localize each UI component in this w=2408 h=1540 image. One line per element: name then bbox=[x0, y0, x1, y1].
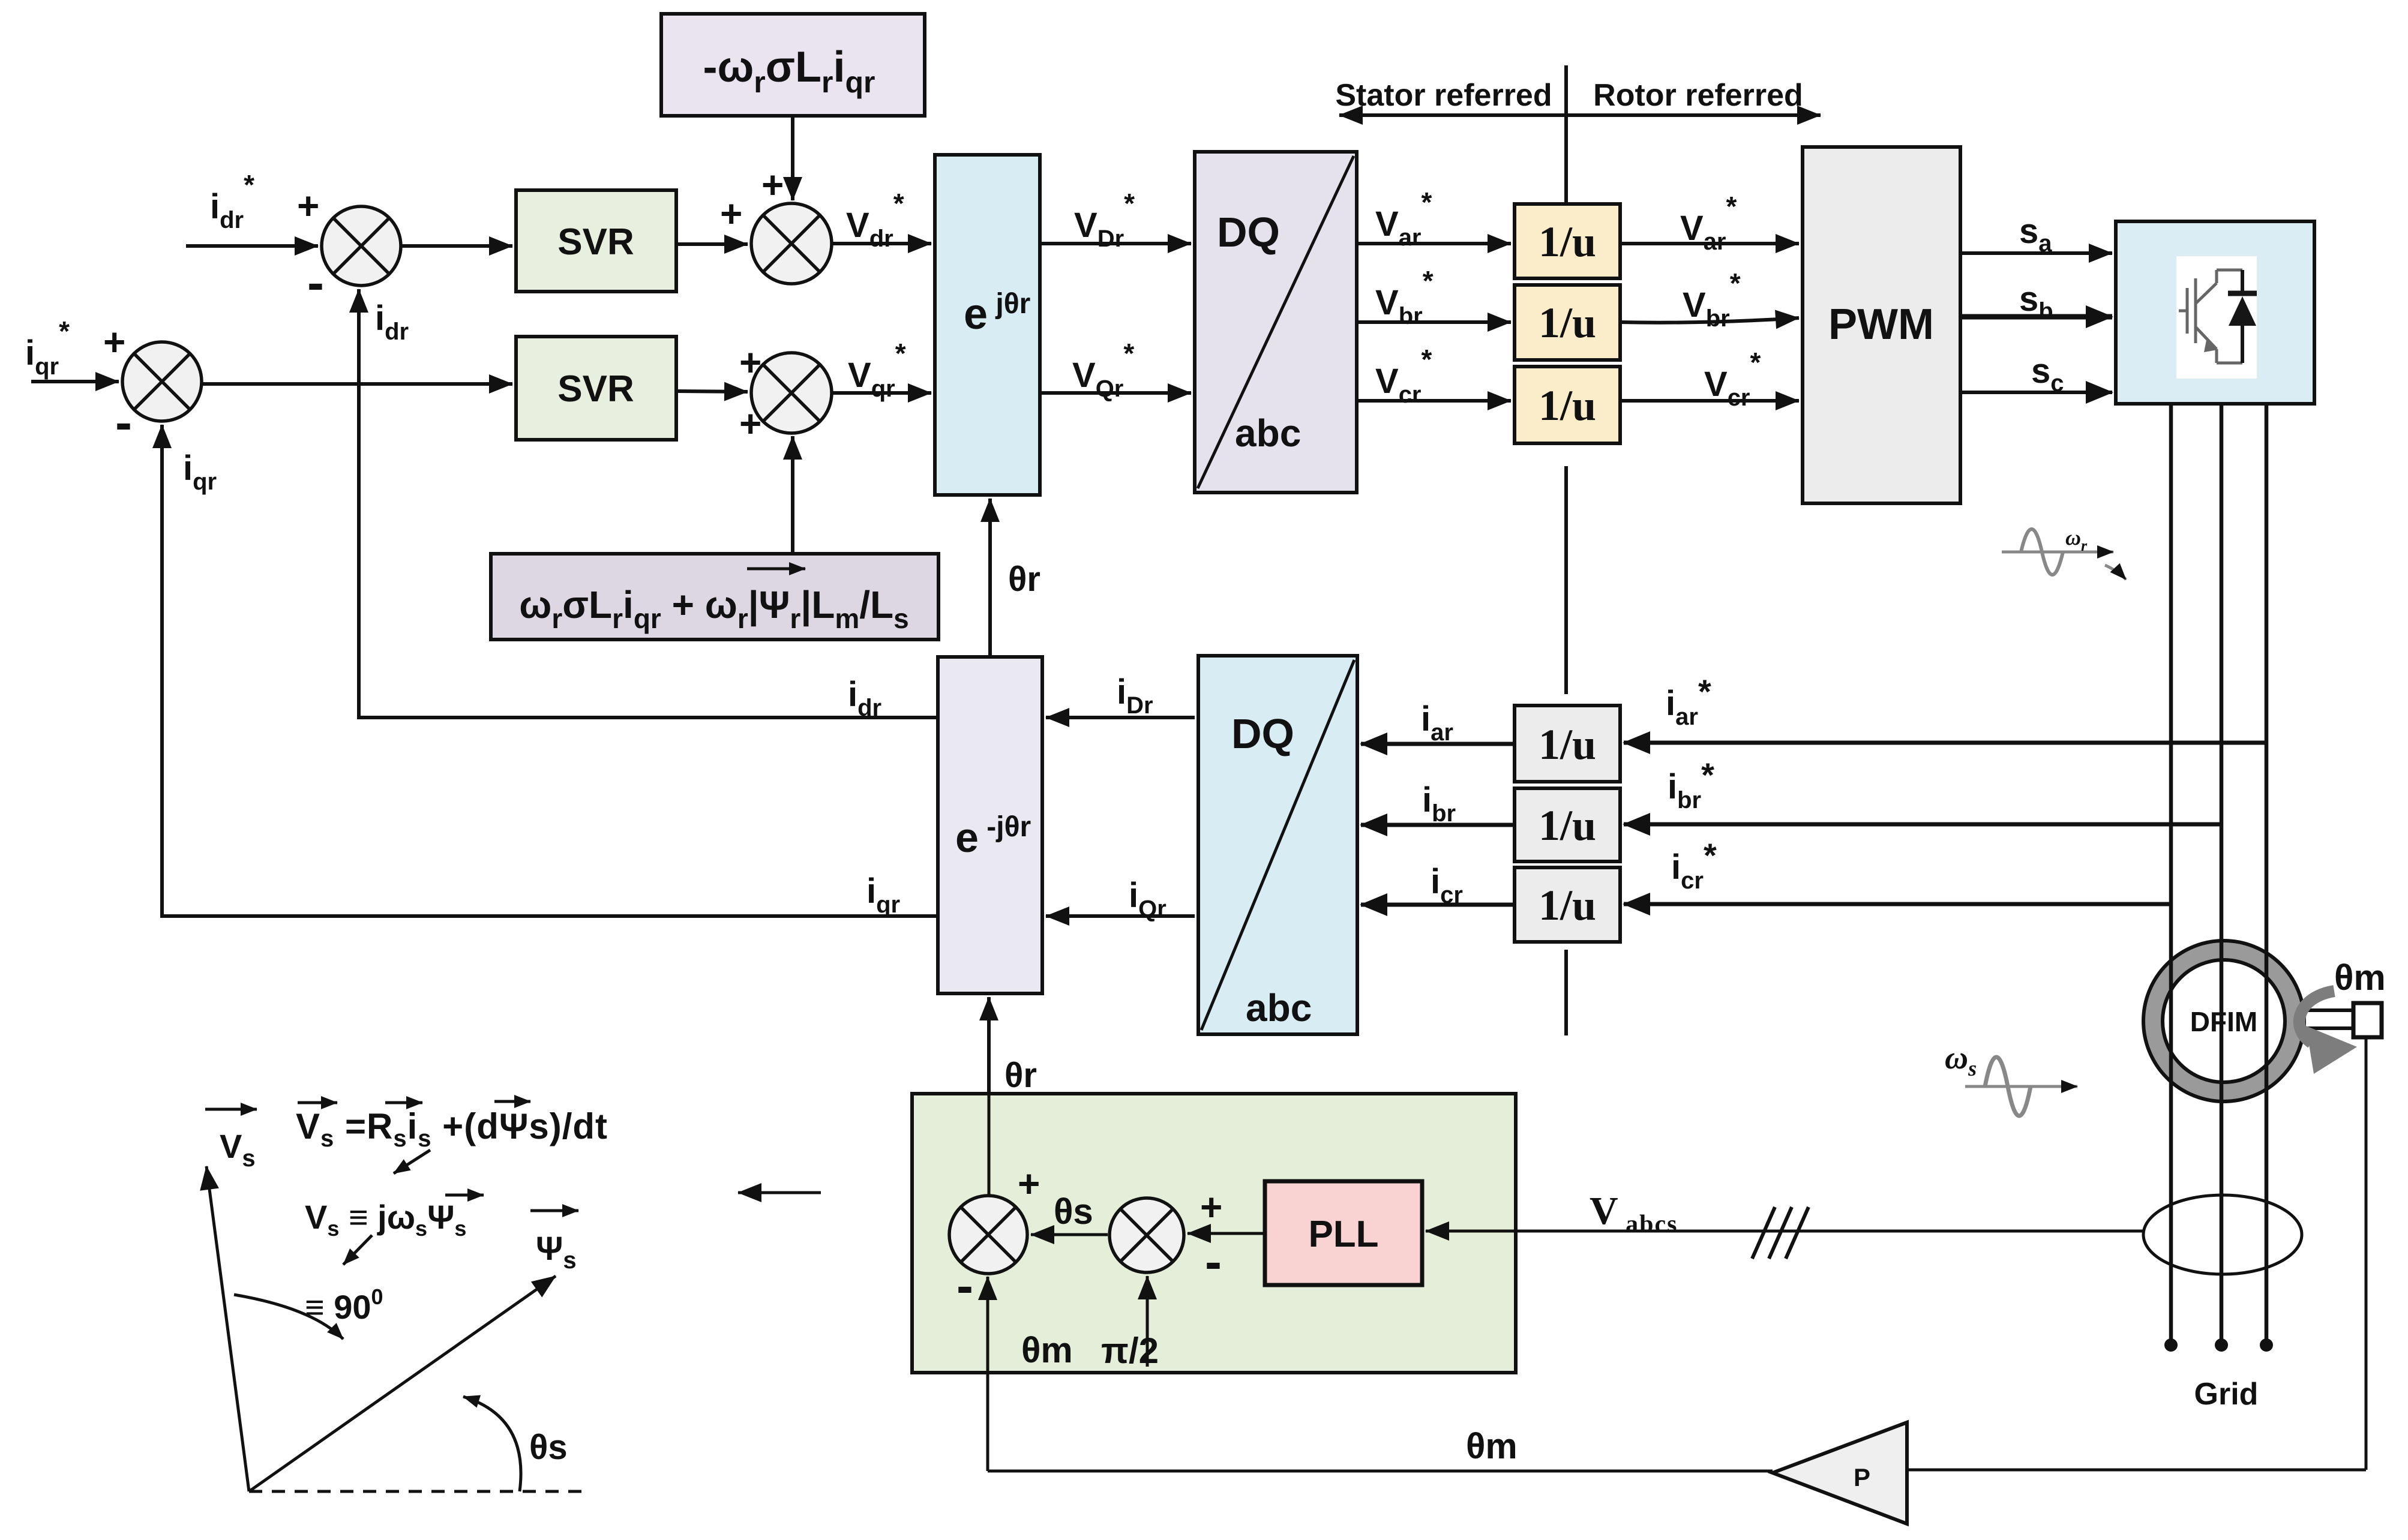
svg-text:θs: θs bbox=[1054, 1191, 1093, 1232]
svg-text:sa: sa bbox=[2019, 212, 2052, 257]
svg-text:1/u: 1/u bbox=[1539, 299, 1596, 347]
svg-text:θs: θs bbox=[529, 1428, 568, 1467]
svg-text:iqr: iqr bbox=[183, 449, 217, 495]
svg-text:Stator referred: Stator referred bbox=[1335, 78, 1552, 113]
svg-text:Vbr*: Vbr* bbox=[1375, 265, 1434, 329]
svg-text:θr: θr bbox=[1004, 1056, 1037, 1095]
svg-text:sc: sc bbox=[2031, 352, 2064, 397]
svg-text:1/u: 1/u bbox=[1539, 218, 1596, 266]
svg-text:1/u: 1/u bbox=[1539, 801, 1596, 849]
svg-text:+: + bbox=[739, 402, 761, 445]
svg-text:+: + bbox=[1018, 1162, 1040, 1205]
svg-text:-: - bbox=[115, 394, 132, 451]
svg-text:-: - bbox=[956, 1257, 973, 1314]
svg-text:-: - bbox=[307, 254, 324, 311]
svg-text:iDr: iDr bbox=[1117, 673, 1153, 719]
svg-text:θm: θm bbox=[2334, 957, 2386, 998]
svg-text:+: + bbox=[761, 163, 784, 206]
svg-text:+: + bbox=[739, 341, 761, 384]
svg-text:Var*: Var* bbox=[1375, 187, 1432, 251]
svg-text:1/u: 1/u bbox=[1539, 721, 1596, 769]
svg-text:ωr: ωr bbox=[2065, 526, 2088, 554]
svg-text:PWM: PWM bbox=[1828, 301, 1934, 349]
svg-text:ωs: ωs bbox=[1945, 1040, 1977, 1080]
svg-text:+: + bbox=[1200, 1185, 1222, 1229]
svg-text:Vs: Vs bbox=[220, 1127, 256, 1172]
svg-text:idr: idr bbox=[375, 299, 409, 345]
svg-text:θr: θr bbox=[1008, 560, 1040, 599]
svg-text:θm: θm bbox=[1466, 1426, 1518, 1466]
svg-text:1/u: 1/u bbox=[1539, 881, 1596, 929]
svg-text:SVR: SVR bbox=[557, 221, 634, 263]
svg-text:idr*: idr* bbox=[210, 169, 254, 233]
svg-text:sb: sb bbox=[2019, 280, 2053, 325]
svg-text:DQ: DQ bbox=[1217, 209, 1280, 256]
svg-text:θm: θm bbox=[1021, 1330, 1073, 1370]
svg-text:+: + bbox=[720, 192, 742, 235]
svg-text:V abcs: V abcs bbox=[1590, 1189, 1678, 1238]
svg-text:DQ: DQ bbox=[1231, 710, 1294, 757]
svg-text:Rotor referred: Rotor referred bbox=[1593, 78, 1803, 113]
svg-text:≡ 900: ≡ 900 bbox=[305, 1284, 383, 1326]
svg-text:iqr: iqr bbox=[866, 872, 900, 918]
svg-text:Vs =Rsis +(dΨs)/dt: Vs =Rsis +(dΨs)/dt bbox=[296, 1106, 608, 1152]
svg-text:abc: abc bbox=[1235, 412, 1301, 455]
svg-text:iar*: iar* bbox=[1666, 673, 1711, 730]
svg-text:DFIM: DFIM bbox=[2190, 1006, 2257, 1037]
svg-text:+: + bbox=[103, 320, 125, 364]
svg-text:Ψs: Ψs bbox=[536, 1229, 577, 1274]
svg-text:ibr: ibr bbox=[1422, 780, 1456, 827]
svg-text:PLL: PLL bbox=[1308, 1214, 1378, 1255]
svg-text:iar: iar bbox=[1421, 700, 1453, 746]
svg-text:Vcr*: Vcr* bbox=[1375, 344, 1432, 408]
svg-text:Vs ≡ jωsΨs: Vs ≡ jωsΨs bbox=[305, 1198, 466, 1241]
svg-text:icr: icr bbox=[1431, 862, 1463, 908]
svg-text:P: P bbox=[1854, 1463, 1870, 1491]
svg-text:SVR: SVR bbox=[557, 368, 634, 410]
svg-text:-: - bbox=[1205, 1233, 1222, 1290]
svg-text:idr: idr bbox=[848, 675, 881, 721]
svg-text:+: + bbox=[297, 184, 319, 227]
svg-text:Grid: Grid bbox=[2194, 1377, 2259, 1412]
svg-text:iqr*: iqr* bbox=[25, 316, 70, 380]
svg-text:icr*: icr* bbox=[1671, 836, 1717, 894]
svg-text:π/2: π/2 bbox=[1101, 1331, 1159, 1371]
svg-text:ibr*: ibr* bbox=[1668, 756, 1714, 813]
svg-text:1/u: 1/u bbox=[1539, 382, 1596, 430]
svg-text:abc: abc bbox=[1246, 986, 1312, 1029]
